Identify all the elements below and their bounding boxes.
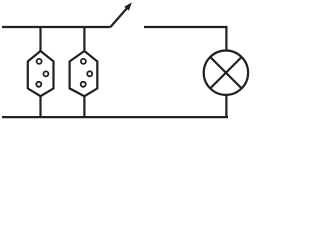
lamp E1 bulb circle [204, 50, 248, 94]
socket outlet X2 pin hole bottom [81, 82, 86, 87]
wire socket1 top drop [39, 27, 41, 52]
socket outlet X1 pin hole top [37, 59, 42, 64]
socket outlet X2 pin hole middle [87, 71, 92, 76]
wire top right [144, 27, 226, 51]
socket outlet X1 body [28, 51, 54, 96]
socket outlet X2 pin hole top [81, 59, 86, 64]
switch S1 arrowhead [124, 2, 132, 10]
wire lamp bottom drop [225, 95, 227, 117]
lamp E1 cross stroke 2 [210, 57, 241, 88]
switch S1 blade [111, 7, 128, 27]
wire socket2 bottom drop [83, 96, 85, 118]
wire bottom (neutral) [2, 116, 228, 118]
wire socket1 bottom drop [39, 96, 41, 118]
wire socket2 top drop [83, 27, 85, 52]
socket outlet X1 pin hole bottom [36, 82, 41, 87]
socket outlet X2 body [70, 51, 98, 96]
wire top left (phase) [2, 26, 111, 28]
lamp E1 cross stroke 1 [210, 57, 241, 88]
socket outlet X1 pin hole middle [43, 71, 48, 76]
